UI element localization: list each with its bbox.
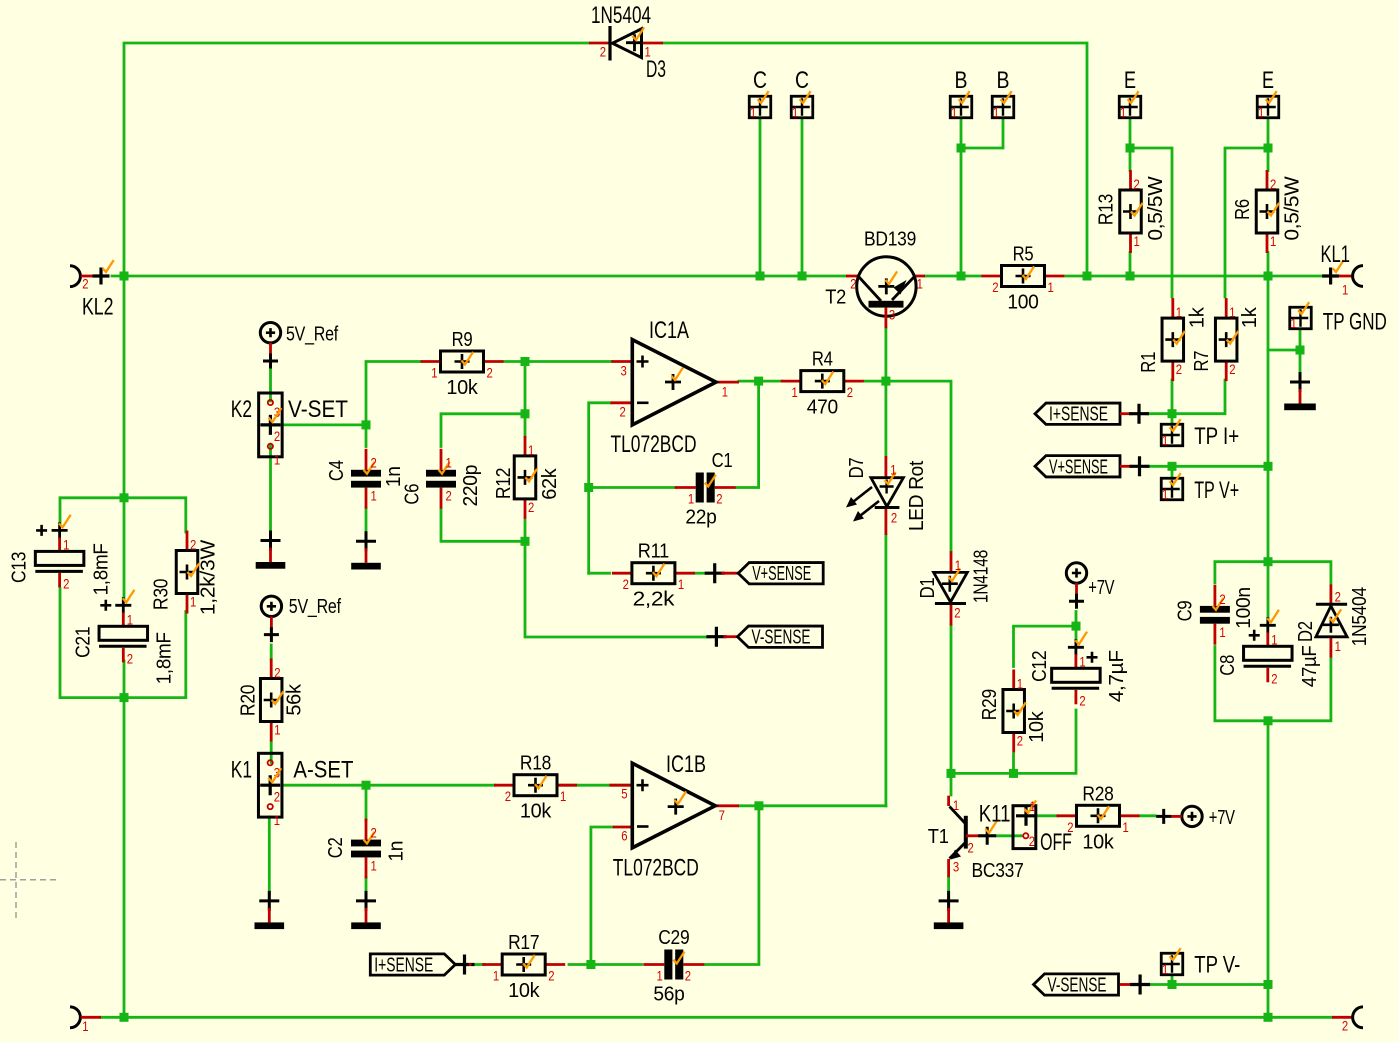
svg-text:1: 1 (190, 594, 196, 610)
pad TP I+ (1160, 419, 1183, 448)
svg-text:K2: K2 (231, 396, 252, 423)
junction (947, 769, 956, 778)
svg-text:R12: R12 (493, 468, 515, 499)
svg-text:2: 2 (992, 279, 998, 295)
wire R18 to IC1B pin5 (557, 784, 631, 787)
connector K1 (231, 753, 354, 828)
wire I+SENSE to R17 (472, 963, 485, 966)
junction (362, 420, 371, 429)
flag V-SENSE (738, 626, 823, 649)
junction (1264, 716, 1273, 725)
junction (1168, 980, 1177, 989)
svg-text:I+SENSE: I+SENSE (1049, 404, 1108, 426)
svg-text:1k: 1k (1186, 306, 1208, 328)
svg-text:1: 1 (1120, 104, 1126, 120)
wire R12 bottom (524, 520, 527, 541)
wire E2 to R7 (1225, 148, 1268, 297)
svg-text:220p: 220p (460, 465, 482, 507)
svg-text:1,8mF: 1,8mF (91, 543, 113, 595)
svg-text:C1: C1 (712, 450, 733, 472)
wire K1 pin1 to ground (268, 817, 271, 894)
svg-text:2: 2 (505, 788, 511, 804)
svg-text:10k: 10k (520, 801, 552, 823)
svg-text:TP V-: TP V- (1194, 952, 1240, 979)
svg-text:V-SENSE: V-SENSE (752, 627, 811, 649)
svg-text:1: 1 (431, 365, 437, 381)
svg-text:C4: C4 (326, 460, 348, 481)
wire C29 to IC1B out (705, 806, 759, 965)
svg-text:TL072BCD: TL072BCD (611, 431, 697, 458)
svg-text:E: E (1124, 67, 1136, 94)
connector K2 (231, 393, 348, 468)
svg-text:2: 2 (63, 575, 69, 591)
svg-text:I+SENSE: I+SENSE (374, 955, 433, 977)
wire top bus right (663, 43, 1087, 276)
svg-text:R30: R30 (150, 579, 172, 610)
capacitor C4 (326, 449, 405, 509)
ground (351, 891, 381, 929)
svg-text:22p: 22p (685, 507, 716, 529)
flag V+SENSE (738, 563, 823, 586)
junction (521, 409, 530, 418)
svg-text:1,2k/3W: 1,2k/3W (197, 540, 219, 615)
wire rail to C8 (1267, 562, 1270, 618)
wire T1 base to K11 (980, 834, 1021, 837)
op-amp IC1B TL072BCD (609, 751, 739, 882)
svg-text:1: 1 (993, 104, 999, 120)
wire node to D1 (886, 381, 951, 550)
ground (256, 531, 286, 569)
junction (1126, 144, 1135, 153)
wire R11 left (589, 572, 610, 575)
svg-text:+7V: +7V (1088, 577, 1115, 599)
wire K2 pin1 to ground (269, 446, 272, 534)
svg-text:KL2: KL2 (82, 294, 114, 321)
resistor R11 (612, 541, 695, 611)
junction (1264, 1013, 1273, 1022)
wire T1 emitter to ground (947, 877, 950, 893)
ground (1284, 372, 1316, 410)
svg-text:B: B (955, 67, 968, 94)
svg-text:1: 1 (1219, 624, 1225, 640)
svg-text:2: 2 (600, 44, 606, 60)
op-amp IC1A TL072BCD (611, 317, 740, 458)
svg-text:1: 1 (1229, 304, 1235, 320)
svg-text:1: 1 (678, 576, 684, 592)
svg-text:1: 1 (560, 788, 566, 804)
junction (1009, 769, 1018, 778)
wire D7 down to IC1B line (885, 535, 888, 806)
svg-text:56p: 56p (653, 984, 684, 1006)
svg-text:BC337: BC337 (972, 860, 1024, 882)
flag I+SENSE (1035, 403, 1120, 426)
connector KL2 pin 1 (70, 1007, 101, 1034)
wire R9 to IC1A pin3 (504, 360, 612, 363)
resistor R29 (979, 670, 1048, 753)
svg-text:2: 2 (127, 650, 133, 666)
svg-text:1: 1 (890, 462, 896, 478)
wire junction to R18 (366, 784, 495, 787)
svg-text:T1: T1 (928, 826, 949, 848)
wire R29 bottom (1012, 754, 1015, 773)
pad TP V+ (1160, 473, 1183, 502)
svg-text:C6: C6 (401, 484, 423, 505)
svg-text:4,7µF: 4,7µF (1106, 650, 1128, 702)
capacitor C12 (1029, 632, 1128, 709)
svg-text:R5: R5 (1013, 244, 1034, 266)
svg-text:1: 1 (750, 104, 756, 120)
wire TP I+ drop (1171, 414, 1174, 425)
resistor R9 (421, 329, 504, 399)
junction (120, 272, 129, 281)
capacitor C9 (1175, 585, 1256, 645)
svg-text:2: 2 (190, 537, 196, 553)
junction (1264, 557, 1273, 566)
flag V+SENSE (1035, 456, 1120, 479)
svg-text:2: 2 (1219, 591, 1225, 607)
svg-text:1: 1 (274, 722, 280, 738)
wire pad B1 drop (960, 119, 963, 277)
wire R6 down main right vertical (1267, 253, 1270, 562)
svg-text:2: 2 (371, 455, 377, 471)
junction (120, 493, 129, 502)
junction (957, 272, 966, 281)
diode D1 1N4148 (917, 550, 993, 626)
wire C9 C8 D2 top rail (1215, 562, 1331, 583)
svg-text:0,5/5W: 0,5/5W (1282, 176, 1304, 240)
supply 5V_Ref (261, 596, 341, 642)
svg-text:62k: 62k (539, 467, 561, 499)
junction (957, 144, 966, 153)
flag V+SENSE pin (1120, 456, 1150, 476)
wire pad C1 drop (759, 119, 762, 277)
wire top bus left (124, 43, 589, 498)
svg-text:2: 2 (487, 365, 493, 381)
wire right vertical lower (1267, 721, 1270, 1018)
svg-text:1: 1 (1048, 279, 1054, 295)
svg-text:LED Rot: LED Rot (906, 460, 928, 531)
junction (586, 960, 595, 969)
svg-text:R6: R6 (1232, 199, 1254, 220)
svg-text:R29: R29 (979, 689, 1001, 720)
wire junction up to R9 (366, 362, 421, 425)
junction (754, 377, 763, 386)
junction (881, 377, 890, 386)
svg-text:R1: R1 (1138, 352, 1160, 373)
pad E (1256, 91, 1279, 120)
wire R1 down (1171, 380, 1174, 414)
frame origin mark (0, 842, 57, 920)
svg-text:BD139: BD139 (864, 229, 916, 251)
capacitor C21 (72, 590, 175, 685)
svg-text:1: 1 (1134, 233, 1140, 249)
svg-text:+7V: +7V (1209, 807, 1236, 829)
svg-text:C8: C8 (1217, 655, 1239, 676)
svg-text:3: 3 (953, 859, 959, 875)
svg-text:C13: C13 (9, 552, 31, 583)
svg-text:V-SET: V-SET (288, 396, 348, 423)
ground (934, 891, 964, 929)
svg-text:1: 1 (127, 611, 133, 627)
wire C12 bottom rail (951, 710, 1076, 773)
svg-text:C29: C29 (658, 927, 689, 949)
svg-text:KL1: KL1 (1321, 241, 1351, 268)
svg-text:1: 1 (792, 104, 798, 120)
svg-text:V+SENSE: V+SENSE (1049, 456, 1108, 478)
svg-text:5: 5 (621, 786, 627, 802)
svg-text:V-SENSE: V-SENSE (1048, 975, 1107, 997)
junction (120, 693, 129, 702)
svg-text:1: 1 (1162, 961, 1168, 977)
wire E1 to R1 (1130, 148, 1172, 297)
wire IC1B out (739, 804, 886, 807)
svg-text:2: 2 (1079, 692, 1085, 708)
svg-text:47µF: 47µF (1299, 645, 1321, 687)
wire left vertical lower (123, 698, 126, 1018)
svg-text:R9: R9 (452, 329, 473, 351)
svg-text:OFF: OFF (1040, 829, 1072, 856)
wire TP GND drop (1299, 329, 1302, 374)
svg-text:2: 2 (1342, 1018, 1348, 1034)
svg-text:1: 1 (1291, 315, 1297, 331)
flag V-SENSE (IC1A) pin (706, 627, 737, 647)
junction (756, 272, 765, 281)
resistor R4 (781, 349, 864, 419)
svg-text:2: 2 (1134, 176, 1140, 192)
resistor R5 (982, 244, 1065, 314)
wire pad E2 drop (1267, 119, 1270, 171)
svg-text:D2: D2 (1295, 621, 1317, 642)
pad TP V- (1160, 948, 1183, 977)
wire IC1A pin2 feedback (589, 403, 611, 573)
svg-text:1: 1 (792, 384, 798, 400)
junction (1264, 272, 1273, 281)
junction (1264, 144, 1273, 153)
svg-text:IC1B: IC1B (666, 751, 706, 778)
svg-text:2: 2 (685, 968, 691, 984)
svg-text:56k: 56k (284, 683, 306, 715)
wire C4 top (365, 425, 368, 447)
svg-text:1: 1 (951, 104, 957, 120)
svg-text:10k: 10k (508, 980, 540, 1002)
svg-text:2: 2 (850, 276, 856, 292)
svg-text:2: 2 (968, 840, 974, 856)
svg-text:2: 2 (1271, 670, 1277, 686)
svg-text:TP V+: TP V+ (1194, 477, 1239, 504)
svg-text:1: 1 (1176, 304, 1182, 320)
svg-text:1: 1 (274, 812, 280, 828)
svg-text:R7: R7 (1191, 351, 1213, 372)
wire cap bank bottom rail (60, 589, 186, 698)
svg-text:R20: R20 (237, 685, 259, 716)
wire 5V_Ref2 to R20 (270, 645, 273, 659)
wire cap bank top rail (60, 498, 186, 532)
svg-text:E: E (1262, 67, 1274, 94)
svg-text:2: 2 (891, 510, 897, 526)
wire C9 C8 D2 bottom rail (1215, 647, 1331, 721)
svg-text:2: 2 (1176, 361, 1182, 377)
svg-text:1: 1 (1271, 631, 1277, 647)
svg-text:R13: R13 (1096, 194, 1118, 225)
wire R28 to +7V (1140, 814, 1156, 817)
wire R17 to junction (569, 963, 591, 966)
junction (1296, 346, 1305, 355)
svg-text:1: 1 (1030, 798, 1036, 814)
junction (798, 272, 807, 281)
svg-text:D7: D7 (846, 457, 868, 478)
pad C (790, 91, 813, 120)
connector KL2 pin 2 (70, 260, 114, 320)
svg-text:1: 1 (446, 455, 452, 471)
flag I+SENSE (370, 954, 455, 977)
wire C2 to ground (365, 878, 368, 895)
wire V+SENSE net (1146, 465, 1268, 468)
svg-text:2: 2 (716, 491, 722, 507)
junction (1072, 622, 1081, 631)
pad B (991, 91, 1014, 120)
wire pad B2 drop (961, 119, 1003, 149)
svg-text:1k: 1k (1239, 306, 1261, 328)
wire C21 bottom (123, 661, 126, 698)
svg-text:R17: R17 (508, 932, 539, 954)
svg-text:1N5404: 1N5404 (591, 2, 651, 29)
wire R9 node down (524, 362, 527, 437)
svg-text:10k: 10k (1082, 831, 1114, 853)
connector KL1 pin 1 (1321, 241, 1364, 298)
wire K2 pin2 to junction (281, 423, 366, 426)
transistor T1 BC337 (928, 796, 1024, 883)
svg-text:1: 1 (1079, 653, 1085, 669)
connector K11 (979, 798, 1072, 856)
ground (351, 531, 381, 569)
flag V+SENSE (R11) pin (705, 563, 738, 583)
svg-text:IC1A: IC1A (649, 317, 689, 344)
svg-text:1: 1 (1162, 486, 1168, 502)
svg-text:1: 1 (371, 858, 377, 874)
wire 5V_Ref to K2 (269, 368, 272, 402)
wire to V-SENSE (525, 541, 710, 637)
wire TP V+ drop (1171, 466, 1174, 478)
wire K1 pin2 to junction (282, 784, 366, 787)
wire R11 right (695, 572, 708, 575)
svg-text:2: 2 (1270, 176, 1276, 192)
wire to C1 left (589, 486, 675, 489)
svg-text:2: 2 (954, 605, 960, 621)
transistor T2 BD139 (825, 229, 925, 329)
wire pad E1 drop (1129, 119, 1132, 171)
junction (754, 801, 763, 810)
svg-text:2: 2 (847, 384, 853, 400)
svg-text:R4: R4 (812, 349, 833, 371)
junction (584, 483, 593, 492)
resistor R1 (1138, 298, 1209, 381)
svg-text:R18: R18 (520, 753, 551, 775)
wire main bus T2-R5 (925, 275, 981, 278)
junction (1126, 272, 1135, 281)
svg-text:1: 1 (1123, 819, 1129, 835)
svg-text:1: 1 (1162, 432, 1168, 448)
svg-text:1: 1 (1017, 676, 1023, 692)
svg-text:1: 1 (1258, 104, 1264, 120)
svg-text:2,2k: 2,2k (633, 589, 676, 611)
svg-text:2: 2 (620, 404, 626, 420)
svg-text:1: 1 (1342, 282, 1348, 298)
wire D1 down (950, 626, 953, 796)
capacitor C13 (9, 515, 113, 596)
svg-text:100: 100 (1007, 292, 1038, 314)
svg-text:2: 2 (528, 499, 534, 515)
wire R20 to K1 (270, 742, 273, 763)
pad TP GND (1289, 302, 1312, 331)
diode D2 1N5404 (1295, 584, 1371, 659)
wire IC1B pin6 feedback (591, 827, 613, 965)
svg-text:2: 2 (1017, 733, 1023, 749)
svg-text:2: 2 (274, 788, 280, 804)
svg-text:K11: K11 (979, 801, 1011, 828)
pad C (748, 91, 771, 120)
junction (1168, 409, 1177, 418)
svg-text:1: 1 (274, 452, 280, 468)
wire C4 to ground (365, 508, 368, 535)
wire C2 top (365, 785, 368, 820)
svg-text:B: B (997, 67, 1010, 94)
svg-text:2: 2 (82, 276, 88, 292)
svg-text:0,5/5W: 0,5/5W (1145, 176, 1167, 240)
resistor R30 (150, 531, 219, 616)
svg-text:C: C (753, 67, 767, 94)
wire to R29 (1014, 626, 1077, 666)
resistor R6 (1232, 170, 1304, 253)
junction (1264, 980, 1273, 989)
resistor R13 (1096, 170, 1168, 253)
svg-text:10k: 10k (1026, 710, 1048, 742)
svg-text:100n: 100n (1233, 587, 1255, 629)
svg-text:2: 2 (274, 665, 280, 681)
svg-text:D1: D1 (917, 577, 939, 598)
junction (521, 357, 530, 366)
wire main bus right (1066, 275, 1329, 278)
svg-text:1: 1 (657, 968, 663, 984)
junction (521, 537, 530, 546)
svg-text:2: 2 (1029, 833, 1035, 849)
wire C21 top (123, 498, 126, 598)
svg-text:D3: D3 (646, 56, 666, 83)
svg-text:1N4148: 1N4148 (971, 550, 993, 603)
junction (120, 1013, 129, 1022)
svg-text:1: 1 (82, 1018, 88, 1034)
svg-text:1: 1 (1335, 638, 1341, 654)
pad E (1118, 91, 1141, 120)
svg-text:2: 2 (371, 825, 377, 841)
capacitor C8 (1217, 610, 1321, 687)
junction (362, 781, 371, 790)
svg-text:3: 3 (621, 363, 627, 379)
capacitor C6 (401, 449, 482, 509)
wire main bus left (112, 275, 846, 278)
wire C6 top (441, 414, 525, 447)
svg-text:C12: C12 (1029, 651, 1051, 682)
resistor R7 (1191, 298, 1261, 381)
svg-text:1: 1 (917, 276, 923, 292)
svg-text:R11: R11 (638, 541, 669, 563)
supply 5V_Ref (260, 323, 338, 369)
svg-text:T2: T2 (825, 287, 846, 309)
svg-text:C: C (795, 67, 809, 94)
svg-text:C2: C2 (325, 837, 347, 858)
supply +7V (1156, 806, 1235, 829)
svg-text:A-SET: A-SET (293, 756, 353, 783)
svg-text:2: 2 (1229, 361, 1235, 377)
